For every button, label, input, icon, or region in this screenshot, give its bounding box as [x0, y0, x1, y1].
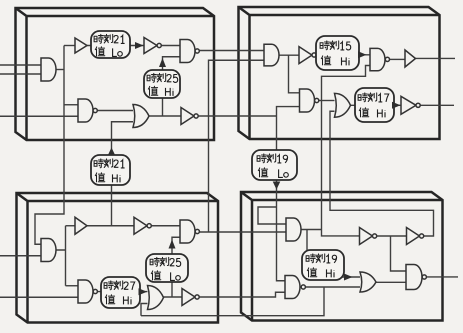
- wire NAND2t output to buffer2: [390, 58, 405, 60]
- wire NOT1b output into box2 to junction: [198, 115, 276, 117]
- AND gate box1: [41, 58, 56, 81]
- label time25 value Lo: [150, 257, 181, 280]
- NAND gate NAND1t box1: [180, 40, 195, 63]
- arrow into NOT2b from bubble time17Hi: [392, 102, 401, 109]
- annotation bubble time25 Lo box3: [146, 254, 188, 282]
- wire stub NAND3b top input: [66, 285, 79, 287]
- NAND gate NAND2t box2: [370, 48, 385, 70]
- module box top-left outline: [16, 8, 215, 140]
- NAND gate NAND2b box2: [300, 89, 315, 112]
- wire NOT1 output to NAND1t: [162, 45, 181, 47]
- wire tap from OR1 output up to NAND1t lower input: [163, 57, 181, 116]
- label time21 value Hi: [94, 159, 125, 183]
- inverter NOT42 box4: [407, 228, 420, 245]
- wire NOT3 output to NAND3t: [152, 225, 181, 227]
- wire external input E to NAND3b: [0, 296, 78, 298]
- wire OR3 lower input from feedback: [141, 304, 148, 316]
- inverter NOT1 box1: [144, 38, 157, 54]
- wire AND4 output junction: [301, 229, 322, 231]
- buffer gate box2 top: [405, 50, 416, 67]
- module box top-right inner edges: [239, 7, 440, 139]
- wire vertical x64 from buffer1 down into box3: [35, 46, 64, 245]
- module box bottom-right outline: [241, 192, 443, 321]
- NAND gate NAND3b box3: [78, 280, 93, 303]
- wire NOT3b output into box4 NAND4 lower input: [199, 292, 285, 297]
- annotation bubble time21 Lo box1: [91, 31, 130, 58]
- annotation bubble time17 Hi box2: [355, 88, 394, 122]
- wire OR2 lower input from box4 NOT42 loop: [330, 111, 434, 236]
- wire box3 NAND3t output up through box1 to AND2 lower input: [209, 60, 265, 232]
- wire NOT2b output to right edge: [420, 104, 454, 106]
- inverter NOT3b box3: [182, 289, 195, 306]
- arrow into OR3 from bubble time27Hi: [139, 288, 148, 295]
- wire NAND42 output to right edge: [426, 276, 458, 278]
- wire NAND2b output to OR2: [319, 100, 335, 102]
- arrow up from bubble time25Lo to NAND3t: [169, 240, 176, 249]
- inverter NOT2b box2: [401, 96, 416, 114]
- wire branch down to NAND42 top input: [391, 236, 407, 271]
- annotation bubble time25 Hi box1: [144, 70, 180, 98]
- module box bottom-left inner edges: [17, 193, 219, 323]
- arrow down from bubble time19Lo into box4: [273, 182, 281, 190]
- wire buffer1 input: [64, 45, 75, 47]
- wire external input A to AND1: [0, 64, 41, 66]
- wire buffer1 output to NOT1: [87, 45, 144, 47]
- module box top-left inner edges: [16, 8, 215, 140]
- arrow up from bubble time21Hi into box1: [108, 148, 116, 156]
- OR gate OR2 box2: [335, 93, 351, 117]
- annotation bubble time15 Hi box2: [316, 36, 359, 70]
- annotation bubble time19 Lo between boxes: [252, 150, 297, 180]
- OR gate OR1 box1: [133, 105, 149, 128]
- wire external input B to AND1: [0, 73, 41, 75]
- wire vertical x276.5 from NAND2b input down through bubble into box4: [277, 107, 300, 281]
- inverter NOT2t box2: [299, 47, 312, 64]
- label time27 value Hi: [104, 281, 135, 305]
- wire NAND3b output to OR3: [97, 291, 147, 293]
- wire AND4 output down to OR4 via bubble19hi: [307, 230, 360, 278]
- arrow into NAND2t from bubble time15Hi: [358, 51, 367, 58]
- wire OR3 output to NOT3b: [164, 296, 183, 298]
- NAND gate NAND4 box4: [285, 276, 300, 299]
- wire stub to NAND1b top input: [64, 104, 78, 106]
- annotation bubble time27 Hi box3: [101, 277, 140, 308]
- annotation bubble time21 Hi between boxes: [91, 155, 130, 185]
- module box top-right outline: [239, 7, 440, 139]
- arrow up from bubble time25Hi to NAND1t: [159, 58, 166, 67]
- label time17 value Hi: [358, 93, 389, 118]
- wire buffer2 output to right edge: [416, 57, 456, 59]
- buffer gate box1 top: [75, 38, 87, 53]
- wire NOT2t output to NAND2t: [316, 54, 370, 56]
- AND gate AND4 box4: [286, 218, 301, 241]
- wire NOT41 output to NOT42 and branch: [377, 235, 407, 237]
- annotation bubble time19 Hi box4: [302, 250, 344, 280]
- wire feedback bottom run from OR3 to NAND4 output: [141, 287, 324, 316]
- wire bubble19lo branch to AND4 top input: [258, 207, 286, 224]
- wire NAND1t output to AND2 top input: [199, 50, 264, 52]
- wire OR2 output to NOT2b: [351, 104, 402, 106]
- module box bottom-right inner edges: [241, 192, 443, 321]
- wire external input D to AND3: [0, 255, 41, 257]
- wire OR1 lower input from box3 via bubble: [112, 122, 134, 226]
- arrow into OR4 from bubble time19Hi: [344, 274, 353, 281]
- OR gate OR3 box3: [148, 286, 164, 310]
- NAND gate NAND3t box3: [180, 220, 195, 243]
- wire OR4 output to NAND42: [376, 281, 406, 283]
- wire junction down to NAND2b top input: [289, 55, 300, 93]
- label time19 value Hi: [306, 254, 336, 278]
- wire external input C to NAND1b: [0, 115, 78, 117]
- buffer gate box3 top: [75, 217, 87, 234]
- label time15 value Hi: [320, 41, 351, 66]
- wire AND2 output to NOT2t: [279, 54, 299, 56]
- module box bottom-left outline: [17, 193, 219, 323]
- wire NAND4 output to OR4 lower input: [305, 286, 360, 288]
- wire AND1 output to junction: [56, 69, 64, 71]
- wire stub buffer3 input: [66, 225, 76, 227]
- wire tap from OR3 output up to NAND3t lower input: [172, 237, 180, 297]
- inverter NOT1b box1: [181, 108, 194, 125]
- AND gate AND2 box2: [264, 44, 279, 66]
- wire NAND3t output to box4 AND4 lower input: [199, 231, 286, 233]
- OR gate OR4 box4: [360, 272, 376, 292]
- inverter NOT3 box3: [134, 217, 147, 234]
- wire buffer3 output to NOT3: [87, 225, 134, 227]
- label time19 value Lo: [257, 154, 288, 178]
- NAND gate NAND1b box1: [78, 99, 93, 122]
- inverter NOT41 box4: [360, 228, 373, 245]
- wire AND3 output junction vertical: [56, 226, 66, 286]
- AND gate AND3 box3: [41, 239, 56, 262]
- arrow into NOT1 from bubble time21Lo: [135, 42, 144, 49]
- NAND gate NAND42 box4: [406, 265, 422, 290]
- wire NAND1b output to OR1: [97, 110, 133, 112]
- label time25 value Hi: [147, 73, 178, 96]
- wire NAND2t lower input loop from box4 AND output: [322, 66, 371, 236]
- wire OR1 output to NOT1b: [149, 115, 181, 117]
- label time21 value Lo: [94, 34, 125, 56]
